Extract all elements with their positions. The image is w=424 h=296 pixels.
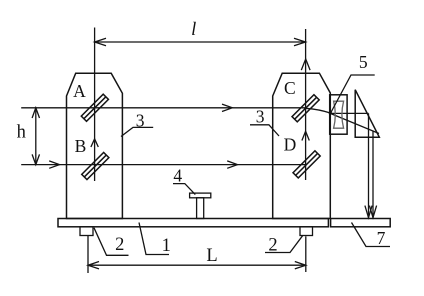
svg-text:7: 7 [377, 228, 386, 248]
svg-text:D: D [284, 135, 297, 155]
svg-text:2: 2 [268, 236, 277, 256]
svg-text:A: A [73, 81, 86, 101]
svg-text:5: 5 [359, 52, 368, 72]
svg-text:B: B [75, 136, 87, 156]
svg-text:3: 3 [136, 111, 145, 131]
svg-text:3: 3 [256, 107, 265, 127]
svg-text:L: L [206, 246, 217, 266]
svg-text:C: C [284, 78, 296, 98]
svg-text:1: 1 [162, 236, 171, 256]
svg-text:h: h [17, 122, 26, 142]
svg-text:2: 2 [115, 235, 124, 255]
svg-text:4: 4 [173, 165, 182, 185]
svg-text:l: l [191, 20, 196, 40]
